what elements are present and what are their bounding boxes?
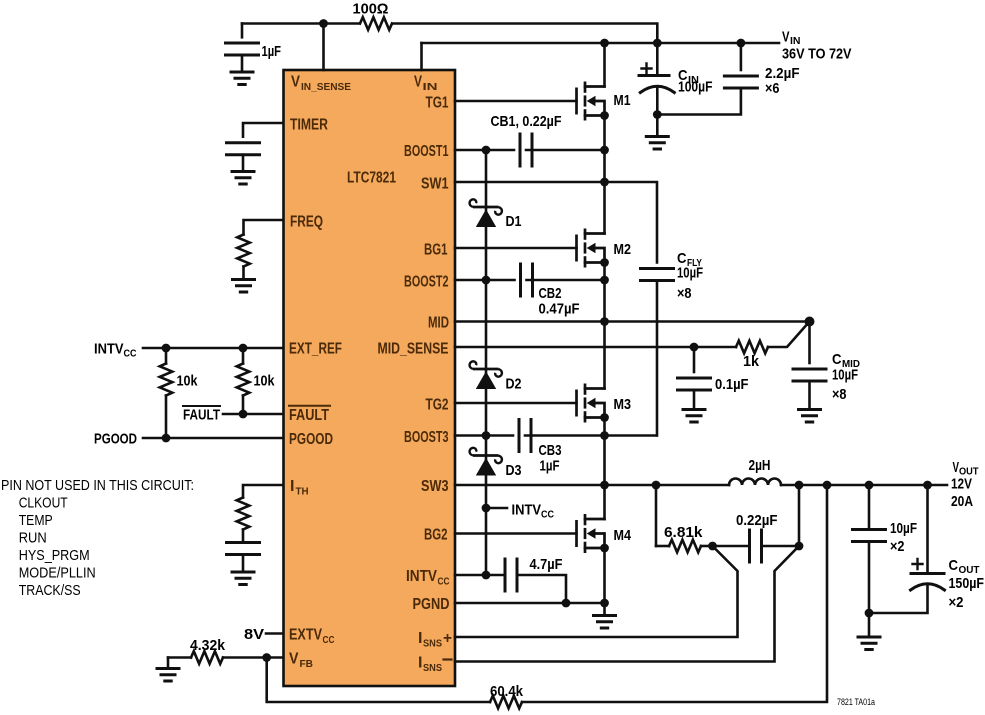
value label 2uH	[749, 457, 771, 474]
svg-text:SNS: SNS	[423, 662, 442, 674]
pin label BG1	[424, 242, 448, 259]
svg-text:×6: ×6	[765, 80, 780, 97]
ground below 0.1uF	[683, 410, 705, 423]
value label 0.1uF	[715, 376, 749, 393]
svg-text:SW1: SW1	[421, 176, 449, 193]
junction dot PGND / 4.7uF	[562, 599, 571, 608]
transistor M4	[577, 514, 609, 553]
node label FAULT (active low)	[183, 406, 220, 424]
value label 1uF	[262, 43, 282, 60]
svg-text:TIMER: TIMER	[290, 117, 328, 134]
junction dot MID_SENSE / 0.1uF	[690, 343, 699, 352]
capacitor 1uF (VIN_SENSE filter)	[226, 24, 259, 71]
svg-text:C: C	[832, 351, 842, 368]
value label 10uF x2	[890, 520, 917, 555]
wire TG1 pin to M1 gate	[455, 100, 577, 103]
text block: pins not used	[1, 478, 194, 599]
wire PGOOD row	[143, 437, 283, 440]
junction dot CB2 / MID column	[600, 276, 609, 285]
wire 8V stub to EXTVCC	[266, 632, 283, 635]
svg-text:6.81k: 6.81k	[664, 524, 703, 541]
capacitor 10uF x2 output	[853, 485, 886, 613]
svg-text:FAULT: FAULT	[289, 407, 329, 424]
svg-text:TG1: TG1	[426, 95, 449, 112]
svg-text:BOOST3: BOOST3	[404, 429, 449, 446]
svg-text:LTC7821: LTC7821	[347, 170, 396, 187]
wire ISNS+ route	[455, 546, 738, 637]
capacitor CB2	[521, 264, 533, 296]
svg-text:SW3: SW3	[421, 478, 449, 495]
svg-text:100Ω: 100Ω	[353, 1, 389, 18]
svg-text:PIN NOT USED IN THIS CIRCUIT:: PIN NOT USED IN THIS CIRCUIT:	[1, 478, 194, 494]
svg-text:7821 TA01a: 7821 TA01a	[837, 697, 876, 708]
svg-text:TG2: TG2	[426, 397, 449, 414]
wire BOOST3 row to CFLY bottom	[455, 434, 657, 437]
svg-text:12V: 12V	[951, 476, 972, 493]
svg-text:BG1: BG1	[424, 242, 448, 259]
value label 4.7uF	[530, 556, 563, 573]
junction dot output cap ground node	[865, 609, 874, 618]
wire VIN rail	[422, 42, 780, 45]
junction dot CIN ground node	[653, 110, 662, 119]
junction dot VIN rail / M1 drain	[600, 39, 609, 48]
junction dot PGND / M4 source	[600, 599, 609, 608]
diode D3 schottky	[470, 448, 502, 476]
pin label EXTVCC	[289, 627, 335, 647]
svg-text:FAULT: FAULT	[183, 407, 220, 424]
pin label TIMER	[290, 117, 328, 134]
pin label TG1	[426, 95, 449, 112]
wire VFB node down to feedback row	[267, 658, 490, 703]
svg-text:MID_SENSE: MID_SENSE	[378, 341, 449, 358]
pin label BOOST1	[404, 143, 449, 160]
junction dot SW1 / switch column	[600, 178, 609, 187]
value label CB2 0.47uF	[539, 285, 580, 318]
svg-text:D1: D1	[506, 213, 522, 230]
svg-text:CC: CC	[438, 576, 450, 588]
svg-text:HYS_PRGM: HYS_PRGM	[19, 548, 90, 564]
svg-text:CC: CC	[323, 634, 335, 646]
wire BG2 pin to M4 gate	[455, 532, 577, 535]
pin label MID_SENSE	[378, 341, 449, 358]
pin label VFB	[289, 651, 313, 671]
svg-text:150µF: 150µF	[949, 575, 985, 592]
capacitor CIN 100uF electrolytic	[639, 43, 674, 115]
value label 10k (right)	[254, 373, 276, 390]
wire PGND row	[455, 602, 605, 605]
junction dot VIN rail / 2.2uF	[737, 39, 746, 48]
wire M3 drain up to MID node	[603, 322, 606, 389]
svg-text:V: V	[782, 29, 790, 46]
svg-text:RUN: RUN	[19, 531, 47, 547]
wire BOOST2 row	[455, 279, 605, 282]
junction dot MID / switch column	[600, 317, 609, 326]
value label 100ohm	[353, 1, 389, 18]
wire 60.4k to VOUT sense vertical	[522, 485, 827, 702]
value label CMID 10uF x8	[832, 351, 860, 403]
wire FAULT row	[223, 413, 283, 416]
pin label ISNS+	[418, 630, 452, 650]
svg-text:BOOST2: BOOST2	[404, 274, 449, 291]
transistor M3	[577, 384, 609, 423]
svg-text:PGOOD: PGOOD	[289, 431, 333, 448]
svg-text:CC: CC	[124, 348, 137, 360]
wire VFB row	[223, 656, 283, 659]
svg-text:1µF: 1µF	[262, 43, 282, 60]
ref label D1	[506, 213, 522, 230]
svg-text:I: I	[418, 630, 422, 647]
svg-text:M1: M1	[614, 92, 631, 109]
junction dot SW3 / switch column	[600, 481, 609, 490]
svg-text:M2: M2	[614, 241, 632, 258]
wire ITH pin to RC	[243, 485, 283, 498]
svg-text:SNS: SNS	[423, 638, 442, 650]
capacitor on ITH	[227, 543, 260, 571]
ground power ground	[594, 603, 616, 628]
ref label M4	[614, 527, 632, 544]
value label COUT 150uF x2	[949, 557, 985, 611]
pin label SW1	[421, 176, 449, 193]
wire VIN pin stub up to VIN rail	[420, 43, 423, 70]
junction dot PGOOD/10k	[162, 434, 171, 443]
ground below ITH network	[232, 572, 254, 585]
capacitor on TIMER	[227, 143, 260, 170]
wire TG2 pin to M3 gate	[455, 402, 577, 405]
junction dot at 100ohm / VIN_SENSE node	[319, 19, 328, 28]
svg-text:D2: D2	[506, 376, 522, 393]
ref label M2	[614, 241, 632, 258]
node label 8V	[244, 626, 264, 643]
transistor M1	[577, 82, 609, 121]
svg-text:0.22µF: 0.22µF	[736, 512, 778, 529]
junction dot CB1 / M1 source column	[600, 146, 609, 155]
svg-text:4.32k: 4.32k	[190, 637, 226, 654]
svg-text:10k: 10k	[177, 373, 199, 390]
svg-text:INTV: INTV	[512, 502, 542, 519]
wire M2 source down to BOOST2 and MID nodes	[603, 263, 606, 322]
value label CFLY 10uF x8	[677, 250, 703, 302]
wire INTVCC row	[455, 575, 566, 603]
svg-text:60.4k: 60.4k	[490, 683, 524, 700]
node label VIN 36V TO 72V	[782, 29, 852, 63]
value label 6.81k	[664, 524, 703, 541]
svg-text:10µF: 10µF	[890, 520, 917, 537]
resistor 4.32k	[168, 651, 223, 664]
svg-text:FB: FB	[300, 658, 314, 670]
junction dot SW3 / sense divider	[652, 481, 661, 490]
resistor 1k	[736, 341, 768, 354]
svg-text:1µF: 1µF	[540, 458, 560, 475]
svg-text:MID: MID	[428, 315, 449, 332]
diode D2 schottky	[470, 361, 502, 389]
capacitor COUT 150uF x2 electrolytic	[869, 485, 945, 613]
pin label ITH	[290, 478, 309, 498]
svg-text:INTV: INTV	[406, 568, 437, 585]
svg-text:CB3: CB3	[539, 442, 562, 459]
capacitor 2.2uF x6 ceramic input	[657, 43, 757, 115]
ground below CMID	[799, 410, 821, 423]
node label PGOOD (left)	[94, 431, 137, 448]
node label INTVCC (bootstrap)	[486, 502, 554, 521]
svg-text:BG2: BG2	[424, 527, 448, 544]
wire M2 drain up to SW1 node	[603, 182, 606, 234]
junction dot EXT_REF/10k right	[239, 344, 248, 353]
resistor on ITH	[237, 498, 250, 543]
svg-text:EXTV: EXTV	[289, 627, 322, 644]
ref label D3	[506, 462, 522, 479]
value label CIN 100uF	[678, 67, 713, 96]
svg-text:TRACK/SS: TRACK/SS	[19, 583, 81, 599]
wire SW3 node down to 6.81k	[655, 485, 658, 546]
svg-text:8V: 8V	[244, 626, 264, 643]
svg-text:CB2: CB2	[539, 285, 562, 302]
inductor L 2uH	[729, 479, 781, 486]
svg-text:FREQ: FREQ	[290, 214, 323, 231]
junction dot BOOST1 / bootstrap ladder	[482, 146, 491, 155]
wire FREQ pin to resistor	[244, 220, 284, 235]
capacitor 0.1uF on MID_SENSE	[678, 347, 711, 408]
svg-text:CLKOUT: CLKOUT	[19, 496, 68, 512]
junction dot VOUT / 0.22uF branch	[795, 481, 804, 490]
svg-text:1k: 1k	[743, 353, 760, 370]
wire VOUT down to 0.22uF right node	[798, 485, 801, 546]
svg-text:I: I	[290, 478, 294, 495]
pin label EXT_REF	[289, 341, 342, 358]
ground below TIMER cap	[232, 172, 254, 185]
svg-text:IN: IN	[423, 81, 438, 93]
wire SW1 row to CFLY	[455, 182, 657, 263]
svg-text:V: V	[291, 74, 300, 91]
pin label FREQ	[290, 214, 323, 231]
value label CB3 1uF	[539, 442, 562, 475]
svg-text:×8: ×8	[677, 285, 692, 302]
svg-text:10µF: 10µF	[832, 367, 858, 384]
wire SW3 / VOUT row	[455, 484, 947, 487]
junction dot FAULT/10k	[239, 410, 248, 419]
node label VOUT 12V 20A	[951, 459, 979, 510]
ref label D2	[506, 376, 522, 393]
junction dot VOUT / 10uF branch	[865, 481, 874, 490]
pin label BOOST3	[404, 429, 449, 446]
svg-text:V: V	[289, 651, 299, 668]
svg-text:M4: M4	[614, 527, 632, 544]
svg-text:10k: 10k	[254, 373, 276, 390]
svg-text:TEMP: TEMP	[19, 513, 53, 529]
svg-text:CC: CC	[541, 509, 554, 521]
svg-text:×8: ×8	[832, 386, 847, 403]
svg-text:BOOST1: BOOST1	[404, 143, 449, 160]
junction dot EXT_REF/10k left	[162, 344, 171, 353]
svg-text:4.7µF: 4.7µF	[530, 556, 563, 573]
svg-text:V: V	[414, 74, 422, 91]
value label 4.32k	[190, 637, 226, 654]
junction dot INTVCC / bootstrap ladder	[482, 571, 491, 580]
value label 10k (left)	[177, 373, 199, 390]
svg-text:36V TO 72V: 36V TO 72V	[782, 46, 852, 63]
wire M4 source down to PGND node	[603, 548, 606, 603]
svg-text:100µF: 100µF	[678, 79, 713, 96]
wire EXT_REF row	[143, 347, 283, 350]
svg-text:MODE/PLLIN: MODE/PLLIN	[19, 566, 96, 582]
pin label INTVCC	[406, 568, 450, 588]
svg-text:×2: ×2	[949, 594, 964, 611]
junction dot VFB node	[262, 653, 271, 662]
capacitor 4.7uF on INTVCC	[505, 559, 517, 591]
pin label PGOOD	[289, 431, 333, 448]
pin label PGND	[413, 596, 450, 613]
svg-text:0.47µF: 0.47µF	[539, 301, 580, 318]
ground below 1uF	[231, 72, 253, 85]
junction dot MID / CMID node	[805, 317, 815, 327]
svg-text:I: I	[418, 655, 422, 672]
junction dot BOOST3 / bootstrap ladder	[482, 431, 491, 440]
pin label MID	[428, 315, 449, 332]
diode D1 schottky	[470, 199, 502, 227]
svg-text:INTV: INTV	[94, 341, 124, 358]
wire M4 drain up to SW3 node	[603, 485, 606, 519]
ground below output caps	[858, 613, 880, 650]
pin label SW3	[421, 478, 449, 495]
resistor 10k (left, to PGOOD)	[160, 348, 173, 438]
svg-text:PGOOD: PGOOD	[94, 431, 137, 448]
svg-text:D3: D3	[506, 462, 522, 479]
resistor on FREQ	[237, 235, 250, 278]
capacitor CFLY flying cap	[641, 269, 674, 436]
pin label ISNS-	[418, 655, 452, 675]
pin label VIN	[414, 74, 438, 94]
pin label BOOST2	[404, 274, 449, 291]
pin label TG2	[426, 397, 449, 414]
bootstrap ladder vertical wire (BOOST1 to INTVCC)	[485, 150, 488, 575]
resistor 10k (right, to FAULT)	[237, 348, 250, 414]
transistor M2	[577, 229, 609, 268]
junction dot VIN rail / CIN	[653, 39, 662, 48]
ref label M1	[614, 92, 631, 109]
ground left of 4.32k	[157, 658, 179, 682]
wire BOOST1 row	[455, 149, 605, 152]
wire ISNS- route	[455, 546, 799, 662]
wire M1 source down to BOOST1 node and SW1 node	[603, 116, 606, 183]
wire top rail from 1uF cap through 100 ohm to CIN node	[242, 24, 657, 44]
value label 2.2uF x6	[765, 65, 800, 97]
wire TIMER pin to cap	[243, 123, 283, 137]
svg-text:M3: M3	[614, 396, 632, 413]
node label INTVCC (left)	[94, 341, 137, 360]
resistor 60.4k	[490, 696, 522, 709]
junction dot VOUT / feedback branch	[823, 481, 832, 490]
ref label M3	[614, 396, 632, 413]
capacitor 0.22uF sense	[713, 530, 800, 562]
svg-text:10µF: 10µF	[677, 265, 703, 282]
svg-text:C: C	[949, 557, 959, 574]
wire M3 source down to BOOST3 and SW3 nodes	[603, 418, 606, 486]
value label 0.22uF (sense)	[736, 512, 778, 529]
wire VIN_SENSE stub	[322, 24, 325, 71]
svg-text:IN_SENSE: IN_SENSE	[301, 81, 351, 93]
svg-text:EXT_REF: EXT_REF	[289, 341, 342, 358]
wire MID_SENSE row	[455, 322, 810, 348]
svg-text:PGND: PGND	[413, 596, 450, 613]
junction dot CB3 / switch column	[600, 431, 609, 440]
junction dot BOOST2 / bootstrap ladder	[482, 276, 491, 285]
svg-text:×2: ×2	[890, 538, 905, 555]
junction dot VOUT / COUT branch	[923, 481, 932, 490]
op-amp U1 LTC7821 controller IC body	[284, 70, 456, 686]
value label 1k	[743, 353, 760, 370]
svg-text:CB1, 0.22µF: CB1, 0.22µF	[491, 113, 562, 130]
junction dot 0.22uF / ISNS-	[795, 542, 804, 551]
svg-text:TH: TH	[296, 486, 309, 498]
svg-text:20A: 20A	[951, 493, 973, 510]
value label CB1, 0.22uF	[491, 113, 562, 130]
resistor R 100ohm	[360, 17, 392, 30]
value label 60.4k	[490, 683, 524, 700]
junction dot D3 anode / INTVCC stub	[482, 504, 491, 513]
svg-text:+: +	[443, 630, 452, 647]
ground below FREQ resistor	[233, 280, 255, 293]
wire BG1 pin to M2 gate	[455, 247, 577, 250]
junction dot 6.81k / ISNS+	[708, 542, 717, 551]
ground below CIN	[646, 115, 668, 150]
pin label VIN_SENSE	[291, 74, 351, 94]
pin label FAULT (active low)	[289, 406, 330, 424]
wire MID row	[455, 320, 810, 323]
svg-text:2µH: 2µH	[749, 457, 771, 474]
resistor 6.81k	[656, 540, 713, 553]
wire M1 drain to VIN rail	[603, 43, 606, 87]
footnote 7821 TA01a	[837, 697, 876, 708]
capacitor CMID 10uF x8	[793, 322, 826, 408]
capacitor CB3	[519, 420, 531, 452]
pin label BG2	[424, 527, 448, 544]
svg-text:0.1µF: 0.1µF	[715, 376, 749, 393]
capacitor CB1	[520, 134, 532, 166]
